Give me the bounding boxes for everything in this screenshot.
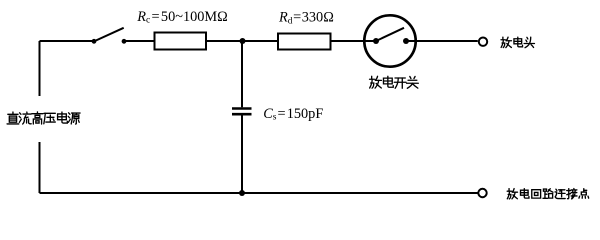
- svg-text:Rd=330Ω: Rd=330Ω: [278, 10, 334, 27]
- svg-text:Cs=150pF: Cs=150pF: [263, 106, 323, 123]
- svg-text:Rc=50~100MΩ: Rc=50~100MΩ: [136, 9, 227, 26]
